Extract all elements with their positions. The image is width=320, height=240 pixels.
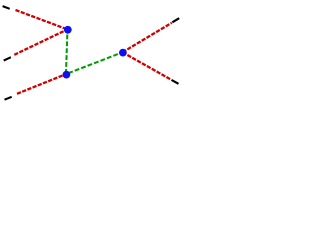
wire L1 incoming top-left red dashed bbox=[16, 10, 68, 29]
node V1 vertex blue dot bbox=[64, 26, 72, 34]
node L2 arrow black tip bbox=[4, 57, 11, 60]
node L5 arrow black tip bbox=[172, 80, 179, 84]
wire L2 incoming mid-left red dashed bbox=[14, 29, 67, 54]
node L3 arrow black tip bbox=[5, 97, 12, 100]
node L4 arrow black tip bbox=[172, 18, 179, 22]
node L1 arrow black tip bbox=[3, 6, 10, 9]
wire L4 outgoing top-right red dashed bbox=[123, 23, 172, 53]
wire L5 outgoing bottom-right red dashed bbox=[123, 52, 171, 79]
wire L3 incoming bottom-left red dashed bbox=[17, 74, 66, 94]
wire Z1 internal green dashed vertical bbox=[66, 35, 67, 73]
wire Z2 internal green dashed diagonal bbox=[68, 52, 122, 73]
node V3 vertex blue dot bbox=[119, 49, 127, 57]
node V2 vertex blue dot bbox=[63, 71, 71, 79]
